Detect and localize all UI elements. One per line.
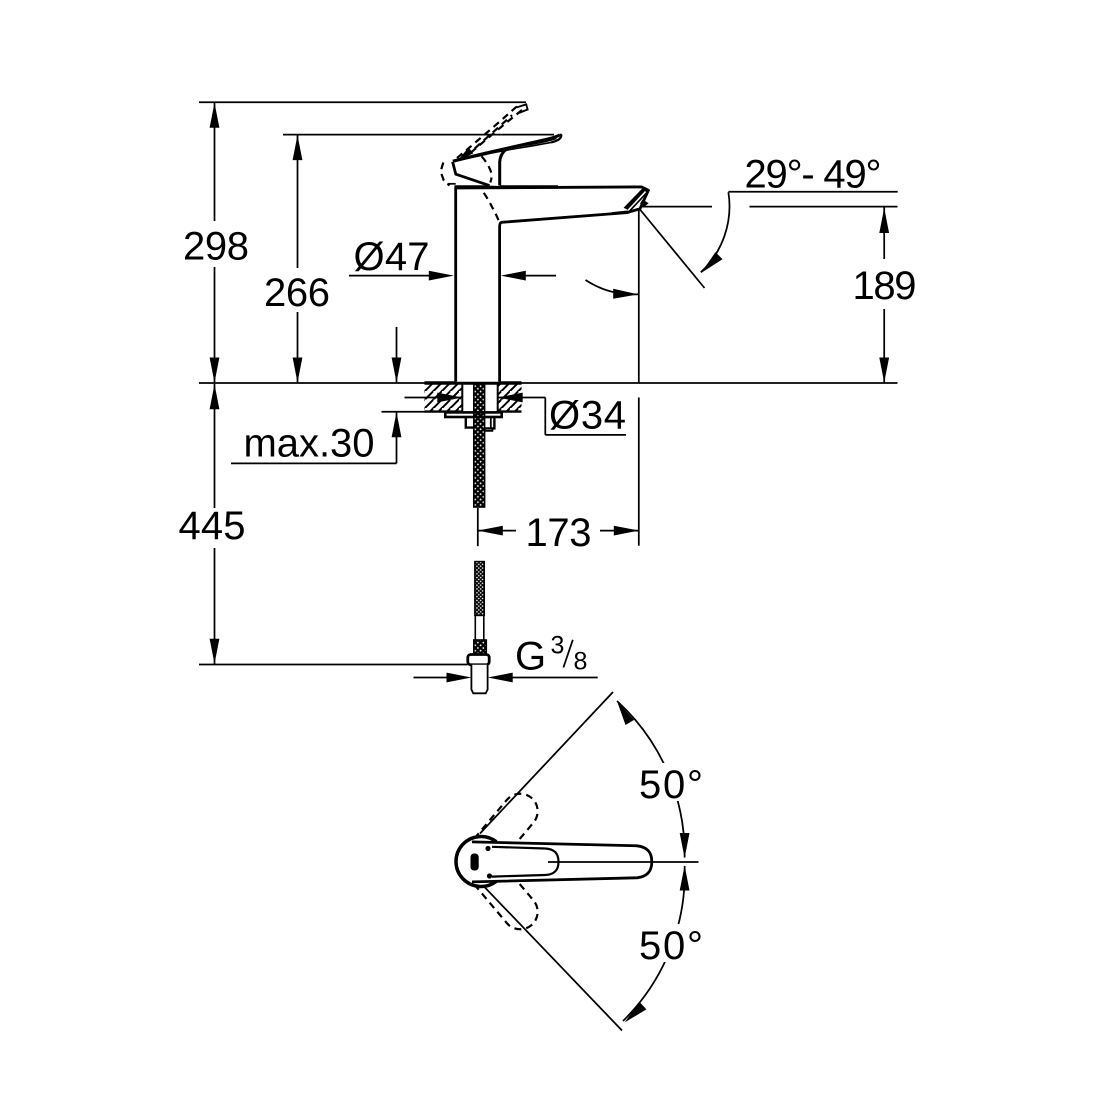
svg-text:G: G <box>515 635 546 679</box>
mounting nut <box>466 417 495 431</box>
dimension 266 height line <box>264 135 554 383</box>
dimension D47 body diameter <box>349 235 556 281</box>
svg-text:445: 445 <box>179 504 246 548</box>
svg-text:3: 3 <box>551 632 565 660</box>
label 50 degrees upper <box>635 763 707 807</box>
handle base dome <box>448 156 500 186</box>
top view: dashed handle rotated up 50 <box>474 794 537 861</box>
top view: 50 degree line upper <box>480 692 613 834</box>
water stream diagonal line <box>640 210 705 289</box>
svg-text:50°: 50° <box>639 763 703 807</box>
mounting hole walls <box>462 383 497 412</box>
dimension G3/8 connection <box>414 632 598 683</box>
dimension 189 spout height <box>853 208 917 384</box>
svg-text:Ø34: Ø34 <box>549 394 626 438</box>
faucet lever raised (dashed phantom position) <box>441 104 528 185</box>
faucet lever solid <box>453 135 562 162</box>
aerator level extension line <box>640 206 898 208</box>
dimension 298 height line <box>183 102 526 383</box>
aerator outlet <box>612 188 650 214</box>
hose fitting collar <box>474 640 487 656</box>
svg-text:8: 8 <box>574 648 588 676</box>
aerator vertical extension line <box>638 210 640 546</box>
label 50 degrees lower <box>635 924 707 968</box>
dimension 29-49 spray angle <box>701 153 898 273</box>
counter cross-section hatched right block <box>498 384 522 412</box>
dimension D34 hole diameter <box>405 393 627 438</box>
flexible hose braided section <box>475 562 485 616</box>
top view: solid handle outline <box>456 837 652 887</box>
top view: 50 degree line lower <box>484 887 622 1031</box>
hose plain tube section <box>475 616 484 641</box>
top view: upper 50 arc <box>617 701 690 858</box>
svg-text:max.30: max.30 <box>244 421 375 465</box>
top view: lower 50 arc <box>623 866 690 1023</box>
dimension max.30 counter thickness <box>231 327 426 465</box>
threaded mounting stud <box>474 384 485 507</box>
svg-text:266: 266 <box>264 271 330 315</box>
faucet body and spout outline <box>454 187 648 382</box>
top view: dashed handle rotated down 50 <box>474 862 537 929</box>
top view: centerline <box>548 861 699 863</box>
handle neck front edge <box>500 149 507 185</box>
connection pipe end <box>471 665 487 694</box>
svg-text:29°- 49°: 29°- 49° <box>745 153 882 197</box>
dimension 445 depth line <box>179 384 468 665</box>
counter cross-section hatched left block <box>425 384 463 412</box>
dimension 173 spout reach <box>478 508 639 555</box>
countertop reference line <box>199 382 898 384</box>
stream angle arc to vertical <box>586 280 639 299</box>
mounting washer <box>445 412 501 417</box>
svg-text:50°: 50° <box>639 924 703 968</box>
svg-text:Ø47: Ø47 <box>354 235 430 279</box>
top view: handle dome details <box>471 846 493 879</box>
svg-text:173: 173 <box>526 511 592 555</box>
svg-text:189: 189 <box>853 264 917 308</box>
hose hex flange <box>468 655 489 665</box>
svg-text:298: 298 <box>183 225 249 269</box>
